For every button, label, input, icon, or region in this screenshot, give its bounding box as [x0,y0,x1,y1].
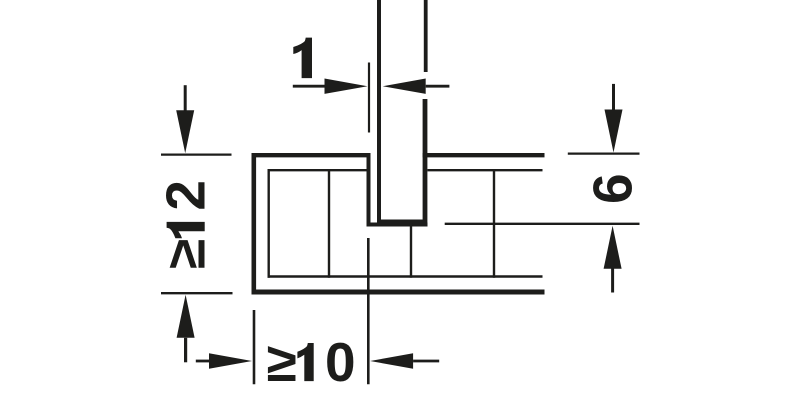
dim 6 top extension line [568,152,640,154]
dim ge10 right arrowhead [370,353,413,368]
dim 1 right arrowhead [383,79,426,94]
dim 6 top arrowhead [605,110,623,153]
board top edge left segment [252,153,371,157]
svg-text:≥: ≥ [155,239,217,269]
dim ge12 bottom arrow tail [184,338,187,363]
dim 6 bottom arrow tail [611,269,614,293]
dim 6 bottom extension line [445,223,640,225]
svg-text:2: 2 [155,180,217,211]
board divider line 2 below groove [410,223,412,278]
dim ge12 bottom extension line [161,292,233,294]
panel right edge lower segment / groove right wall [423,99,428,227]
svg-text:≥: ≥ [267,331,297,393]
dim ge10 left extension line [253,310,256,384]
dim label ge12 (rotated) [155,180,217,269]
dim ge10 left arrow tail [196,360,209,363]
board inner left line [268,169,270,278]
board inner top line left segment [268,169,367,171]
board left edge [252,153,257,295]
dim ge10 right arrow tail [413,360,439,363]
panel left edge [377,0,381,222]
dim ge12 bottom arrowhead [177,295,195,338]
board inner bottom line [268,275,543,278]
board divider line 3 [493,169,495,278]
dim 1 right arrow tail [426,85,450,88]
dim ge10 left arrowhead [209,353,252,368]
groove left wall [367,153,371,226]
dim ge12 top extension line [161,153,232,155]
groove bottom [367,223,428,227]
dim ge12 top arrowhead [176,110,194,153]
dim label ge10 [267,331,356,393]
board inner top line right segment [428,169,543,171]
dim 1 left arrowhead [325,79,368,94]
dim label 1 [293,38,312,79]
panel right edge upper segment [424,0,428,72]
dim 1 left arrow tail [293,85,326,88]
board divider line 1 [328,169,330,278]
dim 6 bottom arrowhead [604,226,622,269]
dim 1 extension line [368,63,370,133]
svg-text:6: 6 [581,173,643,204]
svg-text:0: 0 [325,331,356,393]
dim ge12 top arrow tail [184,85,187,112]
dim ge10 right extension line [367,238,370,384]
panel bottom edge [377,220,426,224]
board top edge right segment [423,153,545,157]
board bottom edge [252,290,545,295]
dim 6 top arrow tail [612,84,615,110]
